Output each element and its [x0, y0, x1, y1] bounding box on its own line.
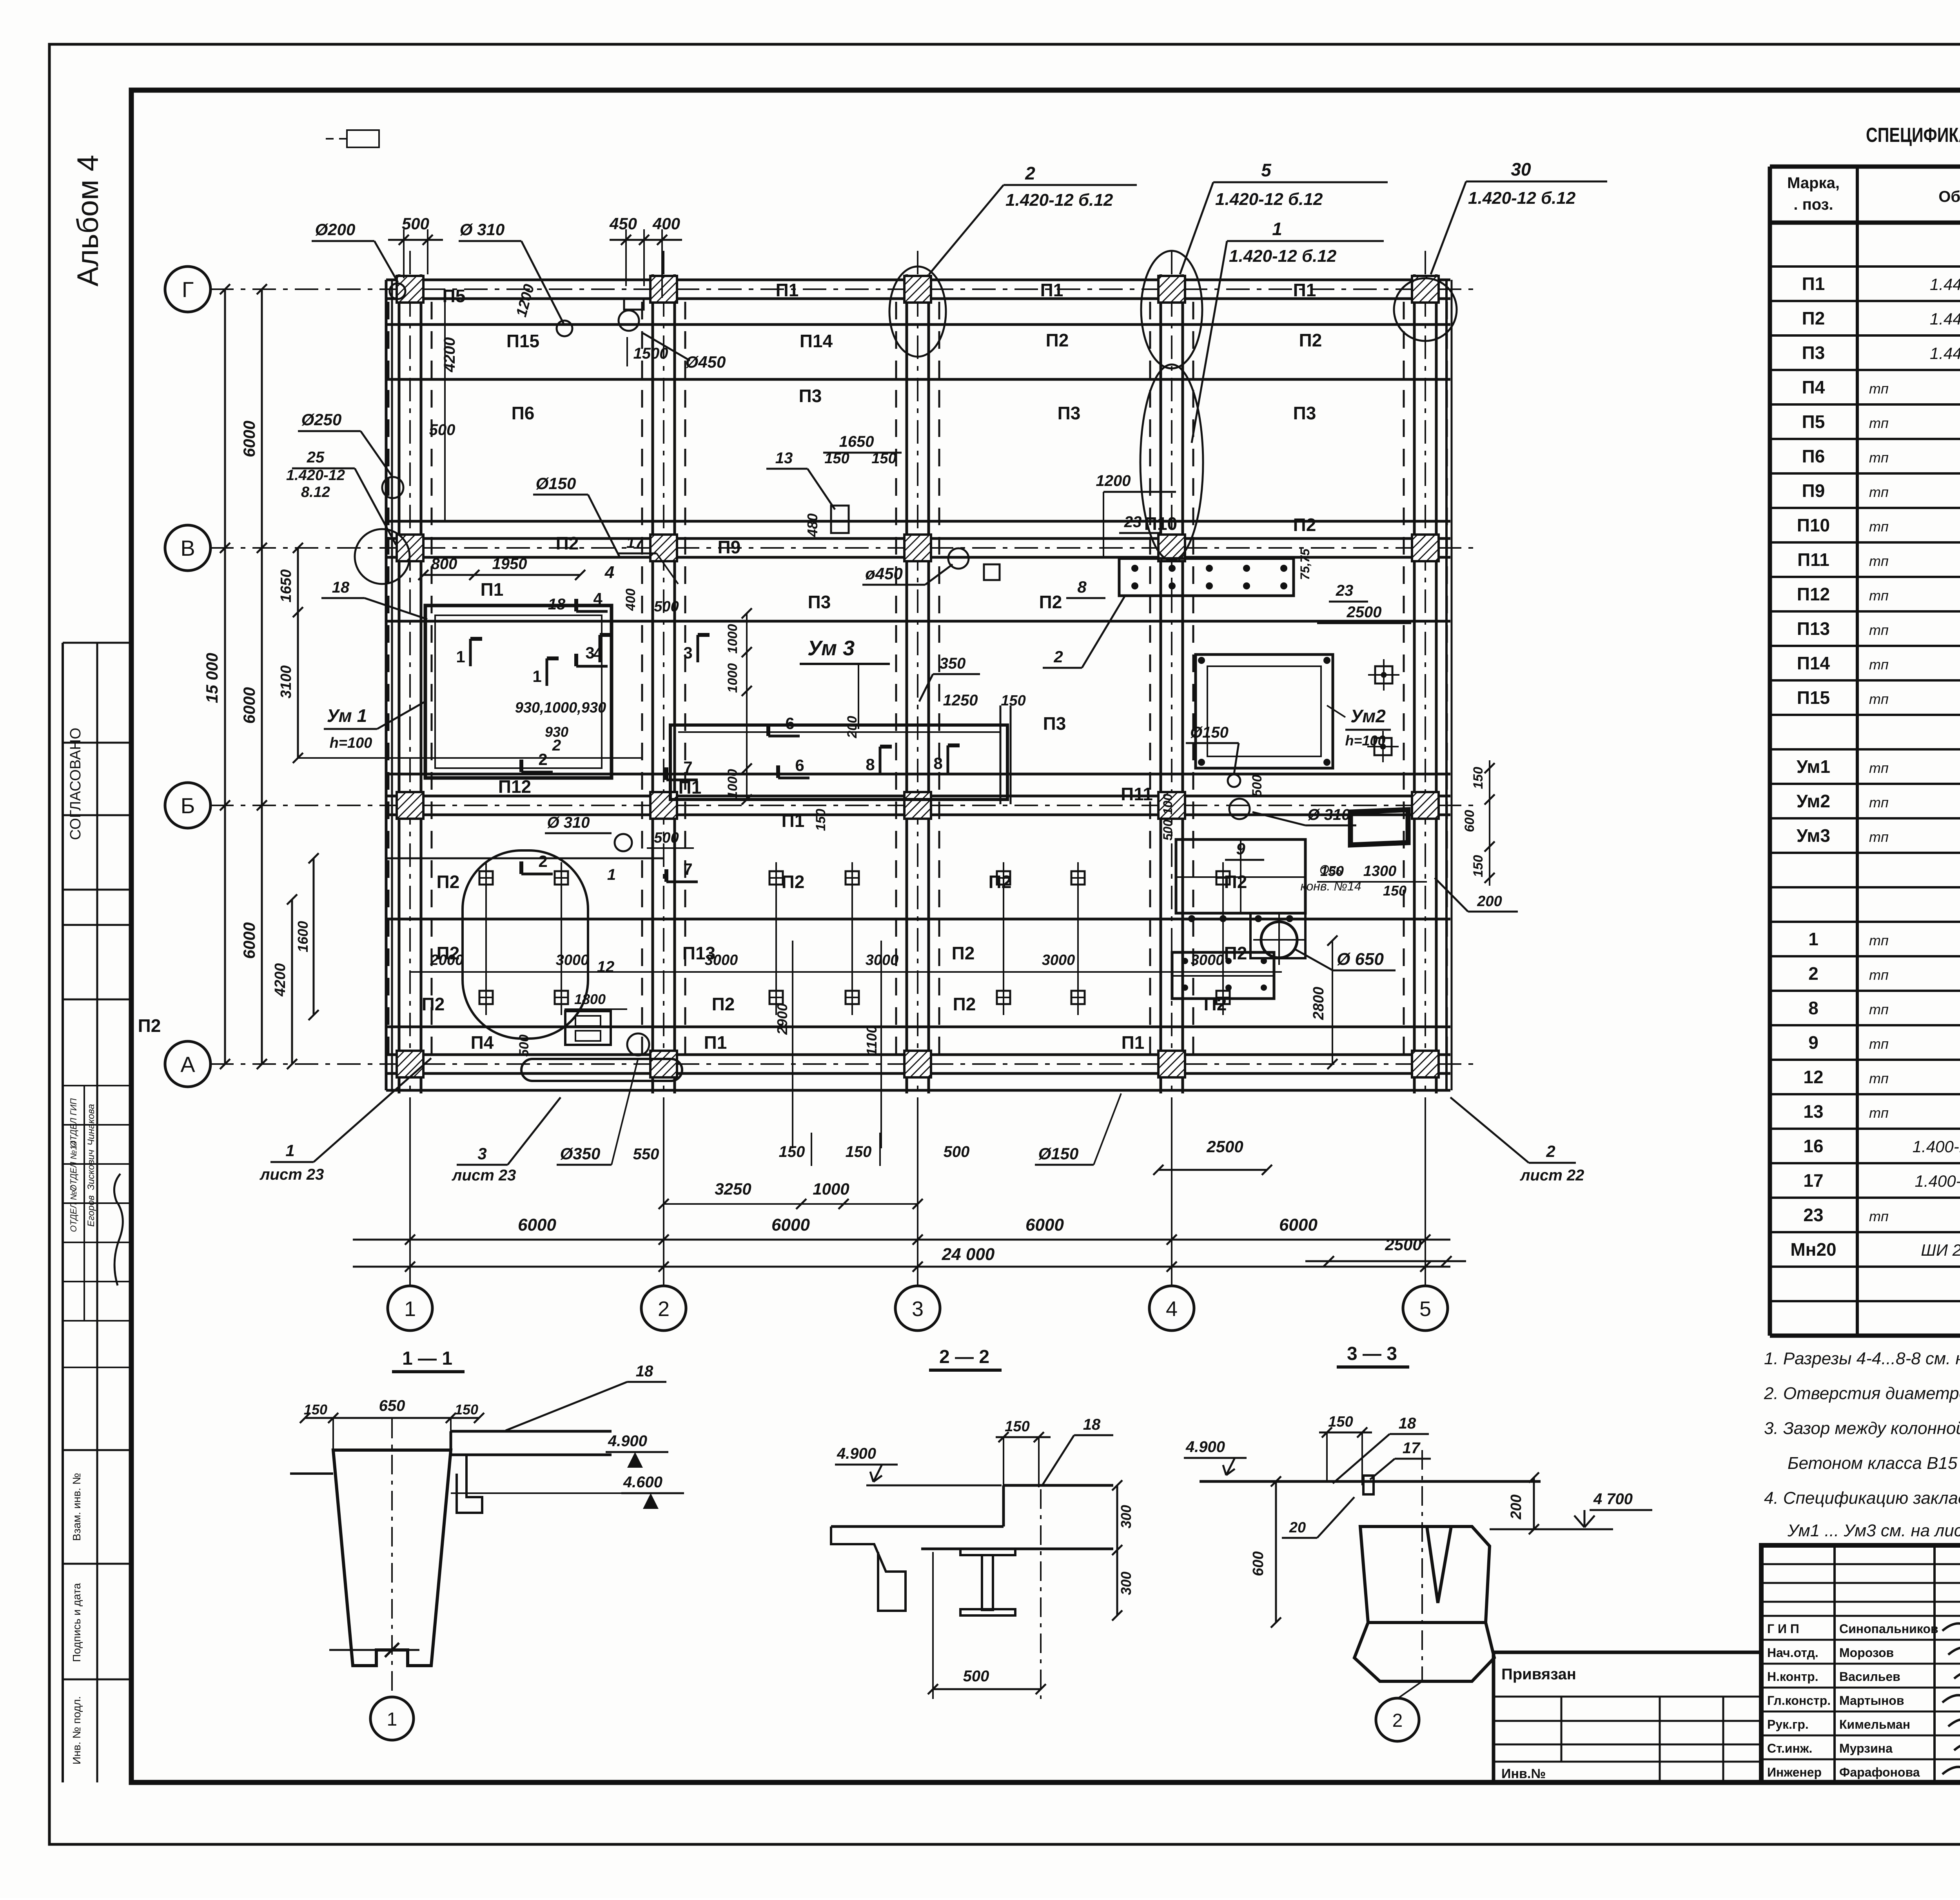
svg-text:П11: П11 — [1797, 549, 1829, 570]
right margin dims — [1310, 760, 1518, 1069]
svg-text:1 — 1: 1 — 1 — [402, 1348, 452, 1369]
svg-text:2: 2 — [538, 852, 547, 870]
svg-text:Егоров: Егоров — [86, 1195, 96, 1227]
svg-text:4.900: 4.900 — [608, 1432, 647, 1450]
svg-text:2: 2 — [552, 737, 561, 754]
svg-text:23: 23 — [1336, 582, 1354, 599]
section 1-1 — [290, 1348, 684, 1740]
svg-text:4: 4 — [593, 589, 603, 608]
svg-text:150: 150 — [813, 809, 828, 831]
svg-text:П2: П2 — [138, 1015, 161, 1036]
svg-text:1: 1 — [532, 667, 541, 685]
svg-text:1.442.1-1 Вып.1: 1.442.1-1 Вып.1 — [1930, 344, 1960, 363]
svg-text:500: 500 — [1161, 819, 1175, 841]
svg-text:3250: 3250 — [715, 1180, 751, 1198]
bottom dimension chains — [353, 1215, 1450, 1272]
svg-text:17: 17 — [1803, 1170, 1823, 1191]
svg-text:650: 650 — [379, 1397, 405, 1414]
svg-text:А: А — [180, 1052, 195, 1077]
svg-text:тп: тп — [1869, 450, 1889, 466]
svg-text:150: 150 — [1001, 693, 1025, 709]
svg-text:Ø 310: Ø 310 — [460, 220, 505, 239]
svg-text:500: 500 — [654, 598, 679, 615]
svg-text:лист 22: лист 22 — [1520, 1167, 1584, 1184]
svg-text:1.442.1-1 Вып.1: 1.442.1-1 Вып.1 — [1930, 310, 1960, 328]
svg-text:600: 600 — [1462, 810, 1477, 832]
svg-text:1: 1 — [387, 1709, 397, 1730]
svg-text:1: 1 — [1808, 929, 1818, 949]
svg-text:П14: П14 — [800, 331, 833, 351]
svg-text:П6: П6 — [1802, 446, 1825, 466]
top callouts 1.420-12 — [929, 159, 1607, 443]
svg-text:СПЕЦИФИКАЦИЯ ЭЛЕМЕНТОВ К СХЕМЕ: СПЕЦИФИКАЦИЯ ЭЛЕМЕНТОВ К СХЕМЕ РАСПОЛОЖЕ… — [1866, 124, 1960, 147]
svg-text:тп: тп — [1869, 829, 1889, 845]
svg-text:2800: 2800 — [1310, 987, 1327, 1021]
svg-text:П13: П13 — [1797, 618, 1830, 639]
svg-text:18: 18 — [1399, 1415, 1416, 1432]
svg-text:тп: тп — [1869, 553, 1889, 569]
dim 800 1950 row — [418, 555, 679, 615]
svg-text:В: В — [180, 536, 195, 560]
svg-text:Чинакова: Чинакова — [86, 1104, 96, 1146]
svg-text:Ø150: Ø150 — [1038, 1144, 1079, 1163]
svg-text:1000: 1000 — [725, 624, 740, 654]
anchor bolts — [463, 850, 1230, 1039]
svg-text:Взам. инв. №: Взам. инв. № — [71, 1473, 83, 1541]
svg-text:23: 23 — [1124, 513, 1142, 531]
svg-text:1800: 1800 — [574, 991, 606, 1007]
svg-text:1600: 1600 — [295, 921, 311, 952]
svg-text:18: 18 — [636, 1363, 653, 1380]
svg-text:2000: 2000 — [430, 952, 464, 968]
svg-text:8: 8 — [1077, 578, 1087, 596]
svg-text:2: 2 — [538, 750, 547, 769]
svg-text:1650: 1650 — [839, 433, 874, 450]
svg-text:15 000: 15 000 — [203, 653, 221, 703]
svg-text:тп: тп — [1869, 484, 1889, 500]
svg-text:2500: 2500 — [1385, 1235, 1421, 1254]
svg-text:1000: 1000 — [813, 1180, 849, 1198]
svg-text:1200: 1200 — [1096, 472, 1131, 490]
svg-text:П2: П2 — [953, 994, 976, 1014]
svg-text:ОТДЕЛ №14: ОТДЕЛ №14 — [69, 1140, 78, 1191]
specification table header text — [1787, 171, 1960, 221]
svg-text:П3: П3 — [799, 386, 822, 406]
section 2-2 — [831, 1347, 1134, 1699]
svg-text:П3: П3 — [1043, 713, 1066, 734]
svg-text:П1: П1 — [481, 579, 504, 600]
svg-text:тп: тп — [1869, 967, 1889, 983]
svg-text:1650: 1650 — [278, 569, 294, 603]
svg-text:2: 2 — [658, 1297, 670, 1321]
svg-text:тп: тп — [1869, 656, 1889, 673]
svg-text:Ст.инж.: Ст.инж. — [1767, 1741, 1812, 1755]
svg-text:Инв.№: Инв.№ — [1501, 1766, 1546, 1781]
svg-text:6000: 6000 — [771, 1215, 810, 1235]
svg-text:300: 300 — [1118, 1505, 1134, 1528]
left dimension chains — [203, 284, 319, 1069]
svg-text:500: 500 — [429, 421, 456, 439]
svg-text:800: 800 — [431, 555, 457, 573]
svg-text:3: 3 — [585, 644, 594, 662]
svg-text:Мурзина: Мурзина — [1839, 1741, 1893, 1755]
svg-text:4: 4 — [593, 644, 603, 663]
specification table title — [1866, 124, 1960, 147]
svg-text:П1: П1 — [1293, 280, 1316, 300]
svg-text:500: 500 — [517, 1035, 532, 1057]
svg-text:1300: 1300 — [1363, 863, 1397, 879]
svg-text:П9: П9 — [1802, 480, 1825, 501]
svg-text:1100: 1100 — [864, 1025, 880, 1055]
title block — [1761, 1545, 1960, 1782]
svg-text:тп: тп — [1869, 519, 1889, 535]
svg-text:4: 4 — [604, 563, 614, 582]
section 3-3 — [1184, 1343, 1652, 1741]
svg-text:9: 9 — [1236, 839, 1245, 858]
svg-text:П3: П3 — [808, 592, 831, 612]
svg-text:П3: П3 — [1058, 403, 1081, 423]
notes — [1764, 1349, 1960, 1540]
embedded plate C with O650 — [1172, 839, 1396, 999]
svg-text:Ø 310: Ø 310 — [1308, 806, 1350, 823]
svg-text:П2: П2 — [556, 533, 579, 553]
svg-text:1. Разрезы 4-4...8-8 см. н: 1. Разрезы 4-4...8-8 см. на листе 23 — [1764, 1349, 1960, 1368]
svg-text:23: 23 — [1803, 1205, 1823, 1225]
svg-text:5: 5 — [1419, 1297, 1431, 1321]
svg-text:П2: П2 — [1293, 515, 1316, 535]
svg-text:6000: 6000 — [518, 1215, 556, 1235]
svg-text:1.420-12 б.12: 1.420-12 б.12 — [1229, 247, 1337, 266]
Um1 monolith area — [293, 606, 643, 778]
svg-text:П2: П2 — [782, 872, 805, 892]
embedded plate B — [1196, 654, 1333, 768]
svg-text:Васильев: Васильев — [1839, 1670, 1900, 1684]
svg-text:П1: П1 — [1802, 274, 1825, 294]
svg-text:2900: 2900 — [774, 1003, 790, 1035]
svg-text:Г: Г — [182, 277, 194, 302]
svg-text:150: 150 — [779, 1143, 805, 1160]
svg-text:Ум3: Ум3 — [1797, 825, 1830, 846]
svg-text:Подпись и дата: Подпись и дата — [71, 1583, 83, 1662]
svg-text:тп: тп — [1869, 415, 1889, 431]
internal dim row 2460 — [410, 866, 1282, 975]
svg-text:2: 2 — [1392, 1710, 1403, 1731]
svg-text:тп: тп — [1869, 1208, 1889, 1224]
svg-text:20: 20 — [1289, 1519, 1306, 1536]
svg-text:1250: 1250 — [943, 692, 978, 709]
svg-text:4 700: 4 700 — [1593, 1490, 1633, 1508]
svg-text:П1: П1 — [1040, 280, 1063, 300]
svg-text:П1: П1 — [1122, 1032, 1145, 1053]
svg-text:лист 23: лист 23 — [260, 1166, 324, 1183]
svg-text:150: 150 — [1320, 863, 1344, 879]
svg-text:тп: тп — [1869, 1070, 1889, 1086]
svg-text:3: 3 — [477, 1144, 486, 1163]
svg-text:ШИ 29 - 2/70 л. 30: ШИ 29 - 2/70 л. 30 — [1921, 1241, 1960, 1259]
svg-text:150: 150 — [455, 1401, 478, 1418]
svg-text:2: 2 — [1808, 963, 1818, 984]
svg-text:7: 7 — [683, 758, 692, 776]
svg-text:Ø250: Ø250 — [301, 410, 342, 429]
svg-text:9: 9 — [1808, 1032, 1818, 1053]
svg-text:П11: П11 — [1121, 784, 1153, 804]
svg-text:400: 400 — [623, 589, 638, 611]
svg-text:Фарафонова: Фарафонова — [1839, 1765, 1920, 1779]
svg-text:Гл.констр.: Гл.констр. — [1767, 1693, 1831, 1708]
svg-text:Морозов: Морозов — [1839, 1646, 1894, 1660]
Um3 monolith band — [515, 608, 1175, 841]
svg-text:150: 150 — [1471, 767, 1486, 789]
extra mid plan details — [321, 548, 1356, 851]
svg-text:П2: П2 — [437, 872, 460, 892]
svg-text:150: 150 — [304, 1401, 327, 1418]
svg-text:75,75: 75,75 — [1298, 548, 1312, 580]
svg-text:600: 600 — [1250, 1551, 1267, 1576]
svg-text:П2: П2 — [712, 994, 735, 1014]
svg-text:400: 400 — [652, 214, 680, 233]
axis circles letters — [165, 267, 211, 1087]
svg-text:1: 1 — [285, 1141, 294, 1160]
svg-text:12: 12 — [597, 958, 615, 975]
svg-text:Ø200: Ø200 — [315, 220, 356, 239]
svg-text:Ум2: Ум2 — [1350, 706, 1386, 726]
svg-text:3100: 3100 — [278, 665, 294, 699]
svg-text:3000: 3000 — [705, 952, 738, 968]
slab labels — [138, 280, 1361, 1053]
svg-text:500: 500 — [1250, 775, 1265, 797]
svg-text:Инв. № подл.: Инв. № подл. — [71, 1696, 83, 1764]
svg-text:3 — 3: 3 — 3 — [1347, 1343, 1397, 1364]
svg-text:тп: тп — [1869, 622, 1889, 638]
svg-text:ОТДЕЛ ГИП: ОТДЕЛ ГИП — [69, 1098, 78, 1147]
svg-text:Ум2: Ум2 — [1797, 791, 1830, 811]
svg-text:18: 18 — [332, 579, 350, 596]
svg-text:П5: П5 — [443, 286, 466, 306]
svg-text:Б: Б — [181, 793, 195, 818]
svg-text:3: 3 — [912, 1297, 924, 1321]
svg-text:П15: П15 — [1797, 687, 1830, 708]
svg-text:500: 500 — [402, 214, 429, 233]
svg-text:17: 17 — [1403, 1440, 1421, 1457]
svg-text:П1: П1 — [782, 810, 805, 831]
svg-text:Зискович: Зискович — [86, 1149, 96, 1190]
svg-text:П2: П2 — [422, 994, 445, 1014]
svg-text:1.420-12 б.12: 1.420-12 б.12 — [1468, 189, 1576, 208]
svg-text:тп: тп — [1869, 587, 1889, 604]
svg-text:1.420-12 б.12: 1.420-12 б.12 — [1215, 190, 1323, 209]
svg-text:2500: 2500 — [1347, 604, 1382, 621]
svg-text:П5: П5 — [1802, 412, 1825, 432]
svg-text:П15: П15 — [506, 331, 539, 351]
svg-text:Синопальников: Синопальников — [1839, 1622, 1938, 1636]
svg-text:200: 200 — [1477, 893, 1502, 910]
svg-text:Инженер: Инженер — [1767, 1765, 1822, 1779]
svg-text:П2: П2 — [1046, 330, 1069, 350]
svg-text:1: 1 — [607, 866, 616, 883]
svg-text:500: 500 — [944, 1143, 970, 1160]
svg-text:6000: 6000 — [240, 687, 258, 723]
plan slab horizontal lines — [386, 280, 1452, 1090]
lower internal dims — [517, 941, 881, 1148]
svg-text:тп: тп — [1869, 1001, 1889, 1017]
svg-text:ø450: ø450 — [865, 564, 903, 583]
svg-text:4.900: 4.900 — [1185, 1438, 1225, 1456]
svg-text:500: 500 — [654, 830, 679, 846]
svg-text:4200: 4200 — [272, 963, 289, 997]
svg-text:12: 12 — [1803, 1067, 1823, 1087]
svg-text:18: 18 — [1083, 1416, 1101, 1433]
svg-text:350: 350 — [940, 655, 966, 672]
svg-text:П14: П14 — [1797, 653, 1830, 673]
svg-text:П10: П10 — [1797, 515, 1830, 535]
svg-text:П3: П3 — [1802, 343, 1825, 363]
specification table rows text — [1790, 237, 1960, 1260]
svg-text:6000: 6000 — [1279, 1215, 1318, 1235]
svg-text:П4: П4 — [471, 1032, 494, 1053]
svg-text:П3: П3 — [1293, 403, 1316, 423]
svg-text:30: 30 — [1511, 159, 1531, 179]
svg-text:450: 450 — [609, 214, 637, 233]
svg-text:Ум 3: Ум 3 — [808, 636, 855, 660]
svg-text:Г И П: Г И П — [1767, 1622, 1799, 1636]
svg-text:тп: тп — [1869, 691, 1889, 707]
plan horizontal axis lines — [210, 289, 1474, 1064]
svg-text:6: 6 — [795, 756, 804, 774]
svg-text:Ø450: Ø450 — [686, 353, 726, 371]
section cut marks on plan — [456, 589, 960, 882]
svg-text:П12: П12 — [1797, 584, 1830, 604]
axis circles numbers — [388, 1267, 1448, 1331]
svg-text:25: 25 — [307, 449, 325, 466]
svg-text:Ум1: Ум1 — [1797, 756, 1830, 777]
svg-text:3: 3 — [683, 644, 692, 662]
svg-text:Альбом 4: Альбом 4 — [71, 155, 105, 286]
svg-text:тп: тп — [1869, 1036, 1889, 1052]
svg-text:150: 150 — [1383, 883, 1406, 899]
svg-text:Ø 650: Ø 650 — [1337, 950, 1384, 969]
svg-text:1.420-12 б.12: 1.420-12 б.12 — [1005, 190, 1113, 210]
svg-text:1950: 1950 — [492, 555, 527, 573]
svg-text:1.400-15 В.1. 140-05: 1.400-15 В.1. 140-05 — [1913, 1137, 1960, 1156]
svg-text:6000: 6000 — [1025, 1215, 1064, 1235]
embedded plate row V axis45 — [1043, 548, 1411, 668]
svg-text:4200: 4200 — [441, 337, 458, 373]
svg-text:17: 17 — [626, 534, 644, 551]
svg-text:1000: 1000 — [725, 769, 740, 799]
svg-text:Ø150: Ø150 — [536, 474, 576, 493]
svg-text:550: 550 — [633, 1146, 659, 1163]
Um2 monolith area — [1327, 659, 1399, 762]
svg-text:100: 100 — [1161, 794, 1175, 815]
plan vertical axes beams columns — [388, 251, 1447, 1267]
svg-text:тп: тп — [1869, 932, 1889, 948]
svg-text:4: 4 — [1166, 1297, 1178, 1321]
svg-text:1500: 1500 — [633, 345, 668, 362]
svg-text:7: 7 — [683, 860, 692, 878]
svg-text:8: 8 — [1808, 998, 1818, 1018]
svg-text:3000: 3000 — [1191, 952, 1224, 968]
svg-text:13: 13 — [775, 450, 793, 467]
svg-text:Ум 1: Ум 1 — [327, 705, 367, 726]
svg-text:2. Отверстия диаметром 150: 2. Отверстия диаметром 150 мм. пробить п… — [1764, 1384, 1960, 1403]
svg-text:5: 5 — [1261, 160, 1272, 180]
specification table grid — [1770, 167, 1960, 1336]
svg-text:П4: П4 — [1802, 377, 1825, 397]
svg-text:Мартынов: Мартынов — [1839, 1693, 1904, 1708]
svg-text:6: 6 — [785, 714, 794, 732]
svg-text:8: 8 — [933, 754, 942, 772]
svg-text:П9: П9 — [718, 537, 741, 557]
svg-text:Ø350: Ø350 — [560, 1144, 601, 1163]
svg-text:П2: П2 — [1224, 872, 1247, 892]
svg-text:2: 2 — [1546, 1142, 1555, 1160]
album label — [71, 155, 105, 286]
svg-text:1.442.1-1 Вып.3: 1.442.1-1 Вып.3 — [1930, 275, 1960, 294]
svg-text:1000: 1000 — [725, 663, 740, 693]
svg-text:1: 1 — [456, 647, 465, 666]
svg-text:3000: 3000 — [556, 952, 589, 968]
svg-text:6000: 6000 — [240, 421, 258, 457]
left strip stamp tables — [63, 643, 131, 1782]
svg-text:1.420-12: 1.420-12 — [286, 467, 345, 484]
svg-text:П2: П2 — [1039, 592, 1062, 612]
svg-text:h=100: h=100 — [330, 735, 372, 751]
svg-text:П1: П1 — [776, 280, 799, 300]
svg-text:Рук.гр.: Рук.гр. — [1767, 1717, 1809, 1731]
svg-text:150: 150 — [846, 1143, 872, 1160]
svg-text:6000: 6000 — [240, 922, 258, 959]
svg-text:4. Спецификацию закладных и: 4. Спецификацию закладных изделий к моно… — [1764, 1488, 1960, 1508]
svg-text:Мн20: Мн20 — [1790, 1239, 1836, 1260]
svg-text:Привязан: Привязан — [1501, 1666, 1576, 1683]
svg-text:П1: П1 — [704, 1032, 727, 1053]
svg-text:3. Зазор между колонной и: 3. Зазор между колонной и межколонной пл… — [1764, 1419, 1960, 1438]
svg-text:ОТДЕЛ №7: ОТДЕЛ №7 — [69, 1186, 78, 1232]
svg-text:Марка,: Марка, — [1787, 174, 1840, 192]
svg-text:тп: тп — [1869, 760, 1889, 776]
svg-text:П6: П6 — [512, 403, 535, 423]
svg-text:. поз.: . поз. — [1793, 196, 1833, 213]
capsule outlines top — [889, 251, 1457, 560]
svg-text:Обозначение: Обозначение — [1938, 188, 1960, 205]
svg-text:1: 1 — [404, 1297, 416, 1321]
svg-text:П2: П2 — [952, 943, 975, 963]
svg-text:П2: П2 — [989, 872, 1012, 892]
svg-text:1.400-15 В.1 810-01: 1.400-15 В.1 810-01 — [1915, 1172, 1960, 1190]
svg-text:500: 500 — [963, 1668, 989, 1685]
svg-text:150: 150 — [1471, 855, 1486, 877]
svg-text:200: 200 — [1508, 1494, 1524, 1519]
svg-text:2: 2 — [1053, 647, 1063, 666]
svg-text:8.12: 8.12 — [301, 484, 330, 500]
svg-text:Бетоном класса В15 на мелк: Бетоном класса В15 на мелком заполнителе… — [1788, 1454, 1960, 1473]
svg-text:2 — 2: 2 — 2 — [939, 1347, 989, 1367]
svg-text:СОГЛАСОВАНО: СОГЛАСОВАНО — [67, 728, 84, 840]
bottom dims row 3085 — [557, 1058, 1466, 1266]
svg-text:930,1000,930: 930,1000,930 — [515, 700, 606, 716]
svg-text:П2: П2 — [1802, 308, 1825, 328]
top dimension cluster — [286, 214, 1176, 584]
svg-text:300: 300 — [1118, 1572, 1134, 1595]
svg-text:Н.контр.: Н.контр. — [1767, 1670, 1818, 1684]
svg-text:4.600: 4.600 — [623, 1474, 662, 1491]
svg-text:4.900: 4.900 — [837, 1445, 876, 1462]
svg-text:13: 13 — [1803, 1101, 1823, 1122]
leader notes bottom — [260, 1058, 1584, 1184]
svg-text:2500: 2500 — [1206, 1137, 1243, 1156]
svg-text:Ум1 ... Ум3 см. на листах: Ум1 ... Ум3 см. на листах 30,31. — [1787, 1521, 1960, 1540]
svg-text:24 000: 24 000 — [942, 1245, 995, 1264]
